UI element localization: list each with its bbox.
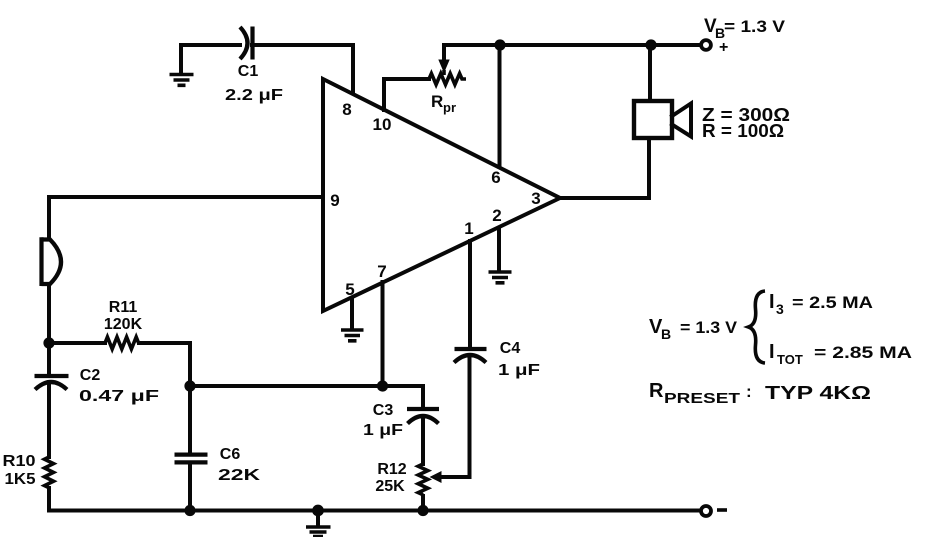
terminal - (bottom right) xyxy=(701,506,727,516)
wire pin 7 down xyxy=(381,282,385,386)
svg-text:B: B xyxy=(661,326,671,342)
node junction R12 / rail xyxy=(417,505,428,516)
microphone MIC1 xyxy=(42,237,62,286)
wire output pin 3 to speaker bottom xyxy=(560,139,649,198)
svg-text:2.2 μF: 2.2 μF xyxy=(225,87,283,104)
wire C4 down to R12 wiper xyxy=(468,356,472,477)
svg-text:pr: pr xyxy=(443,100,456,115)
svg-text:0.47 μF: 0.47 μF xyxy=(79,388,159,405)
svg-text:9: 9 xyxy=(330,191,339,210)
svg-text:3: 3 xyxy=(776,301,784,317)
svg-text:1 μF: 1 μF xyxy=(363,422,403,439)
svg-text:1 μF: 1 μF xyxy=(498,362,540,379)
svg-text:2: 2 xyxy=(492,206,501,225)
wire vertical branch x=190 upper xyxy=(188,343,192,453)
svg-text:10: 10 xyxy=(373,115,392,134)
svg-text:= 2.5 MA: = 2.5 MA xyxy=(792,293,873,312)
svg-text:C3: C3 xyxy=(373,402,394,419)
note ITOT = 2.85 MA xyxy=(769,341,912,367)
wire C2 to R10 xyxy=(47,382,51,457)
node junction rail / speaker xyxy=(645,39,656,50)
capacitor C6 xyxy=(175,446,261,484)
svg-text:1K5: 1K5 xyxy=(5,471,36,488)
svg-text:+: + xyxy=(719,39,728,56)
svg-text:22K: 22K xyxy=(218,467,261,484)
note VB = 1.3 V (annotation) xyxy=(649,316,738,342)
svg-text:3: 3 xyxy=(531,189,540,208)
svg-text:I: I xyxy=(769,341,775,363)
wire speaker top to rail xyxy=(648,45,652,101)
capacitor C4 xyxy=(454,340,540,379)
wire ground G1 to C1 left plate xyxy=(181,43,240,47)
potentiometer R12 xyxy=(375,461,469,495)
svg-text::: : xyxy=(746,382,752,401)
svg-text:= 2.85 MA: = 2.85 MA xyxy=(814,343,912,362)
note RPRESET : TYP 4K ohm xyxy=(649,380,871,407)
svg-text:C1: C1 xyxy=(238,63,259,80)
wire pin 9 input xyxy=(49,195,322,199)
svg-text:C6: C6 xyxy=(220,446,241,463)
brace xyxy=(749,291,766,363)
ground G4 (bottom rail) xyxy=(306,511,331,537)
wire R11 right to vertical branch xyxy=(139,341,190,345)
wire node A to R11 xyxy=(49,341,105,345)
wire C1 right plate to pin 8 xyxy=(252,45,353,92)
ground G1 (top left) xyxy=(170,46,194,85)
capacitor C1 xyxy=(225,27,283,105)
svg-text:TOT: TOT xyxy=(777,352,803,367)
wire pin 2 down xyxy=(497,228,501,270)
wire pin 5 down xyxy=(350,298,354,328)
svg-text:25K: 25K xyxy=(375,478,405,495)
svg-text:R10: R10 xyxy=(3,453,36,470)
node junction rail / pin 6 xyxy=(494,39,505,50)
svg-text:R = 100Ω: R = 100Ω xyxy=(702,121,784,141)
wire pin 10 up to Rpr left lead xyxy=(384,79,429,110)
svg-text:= 1.3 V: = 1.3 V xyxy=(680,318,738,337)
svg-text:= 1.3 V: = 1.3 V xyxy=(724,17,786,36)
svg-text:6: 6 xyxy=(491,168,500,187)
wire top supply rail xyxy=(444,43,699,47)
speaker LS1 xyxy=(634,101,790,141)
svg-text:R11: R11 xyxy=(109,299,138,316)
svg-text:C4: C4 xyxy=(500,340,521,357)
terminal + (VB supply) xyxy=(701,39,728,56)
wire C3 to R12 xyxy=(421,416,425,464)
wire pin 1 down to C4 xyxy=(468,241,472,347)
capacitor C3 xyxy=(363,386,439,439)
svg-text:8: 8 xyxy=(342,100,351,119)
node junction pin 7 / feedback xyxy=(377,380,388,391)
svg-text:7: 7 xyxy=(377,262,386,281)
wire bottom rail xyxy=(49,509,699,513)
wire R12 to bottom rail xyxy=(421,496,425,511)
wire R10 to bottom rail xyxy=(47,488,51,511)
svg-text:C2: C2 xyxy=(80,367,101,384)
node A junction (mic / R11 / C2) xyxy=(43,337,54,348)
wire microphone to node A xyxy=(47,284,51,343)
ground G2 (pin 5) xyxy=(341,330,364,341)
resistor R10 xyxy=(3,453,54,488)
wire feedback horizontal to C3 xyxy=(190,384,423,388)
op-amp U1 triangle xyxy=(323,79,560,311)
svg-text:PRESET: PRESET xyxy=(664,390,740,407)
potentiometer Rpr xyxy=(429,46,466,115)
node junction ground / rail xyxy=(312,505,324,517)
svg-text:120K: 120K xyxy=(104,316,143,333)
wire pin 6 up to rail xyxy=(498,45,502,167)
label VB = 1.3 V (top) xyxy=(704,16,786,41)
svg-text:R12: R12 xyxy=(377,461,406,478)
svg-text:1: 1 xyxy=(464,219,473,238)
wire C6 to bottom rail xyxy=(188,463,192,511)
wire pin 9 corner down to microphone xyxy=(47,197,51,239)
capacitor C2 xyxy=(35,343,160,405)
svg-text:R: R xyxy=(431,92,443,111)
ground G3 (pin 2) xyxy=(489,272,512,283)
svg-text:I: I xyxy=(769,291,775,313)
resistor R11 xyxy=(104,299,143,349)
svg-text:TYP 4KΩ: TYP 4KΩ xyxy=(765,383,871,403)
node junction branch / feedback wire xyxy=(184,380,195,391)
svg-text:R: R xyxy=(649,380,664,402)
note I3 = 2.5 MA xyxy=(769,291,873,317)
node junction C6 / rail xyxy=(184,505,195,516)
